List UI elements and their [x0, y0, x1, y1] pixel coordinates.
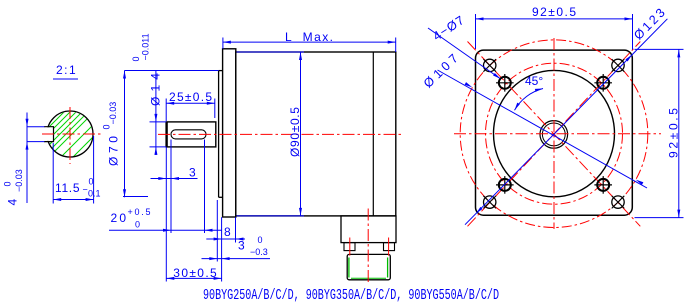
shaft circle outer — [540, 121, 568, 149]
inner red circle — [486, 63, 623, 204]
motor body — [236, 52, 396, 216]
svg-text:0: 0 — [3, 181, 13, 186]
dimension 92±0.5 right — [635, 49, 684, 217]
rear end cap line — [372, 52, 374, 216]
connector housing — [341, 216, 396, 243]
dimension phi14 0/-0.011 — [131, 33, 166, 155]
body top edge blue overlay — [237, 51, 305, 53]
plug green edge bottom — [351, 277, 386, 279]
plug green edge right — [387, 258, 389, 278]
dimension phi70 0/-0.03 — [102, 71, 219, 198]
connector screw right — [388, 238, 390, 256]
dimension 3 0/-0.3 (boss height) — [202, 200, 271, 262]
boss (pilot) face — [219, 71, 223, 198]
dimension 30±0.5 — [166, 266, 221, 280]
shaft circle inner — [542, 123, 565, 146]
corner hole BR — [612, 196, 625, 209]
svg-text:L Max.: L Max. — [285, 30, 333, 44]
shaft — [166, 122, 216, 147]
dimension 25±0.5 — [166, 90, 215, 121]
45 degree arc dimension — [513, 74, 543, 111]
front view centerline vertical — [553, 38, 555, 229]
red diagonal TL-BR — [468, 42, 641, 227]
mounting flange — [223, 49, 236, 217]
detail centerline horizontal — [42, 133, 103, 135]
dimension L Max. — [223, 30, 396, 52]
svg-text:−0.3: −0.3 — [250, 247, 268, 257]
dimension 11.5 0/-0.1 — [53, 136, 100, 204]
svg-text:92±0.5: 92±0.5 — [666, 108, 680, 158]
corner hole TR — [612, 59, 625, 72]
svg-text:4−Ø7: 4−Ø7 — [431, 13, 467, 43]
svg-text:Ø90±0.5: Ø90±0.5 — [288, 107, 302, 157]
flange square — [476, 50, 633, 215]
corner hole TL — [483, 59, 496, 72]
svg-text:Ø14: Ø14 — [149, 73, 163, 106]
svg-text:0: 0 — [131, 56, 141, 61]
corner hole BL — [483, 196, 496, 209]
svg-text:0.1: 0.1 — [88, 189, 101, 199]
dimension 92±0.5 top — [476, 5, 633, 49]
svg-text:30±0.5: 30±0.5 — [173, 266, 217, 280]
side view centerline — [158, 133, 403, 135]
shaft section circle with green hatch — [30, 80, 144, 194]
dimension phi107 diagonal — [421, 51, 647, 188]
connector right tab — [384, 243, 395, 251]
dimension 8 (flange thickness) — [206, 217, 245, 281]
red diagonal BL-TR — [468, 42, 641, 227]
front view centerline horizontal — [454, 133, 661, 135]
svg-text:3: 3 — [238, 238, 245, 252]
screw hole BR — [594, 176, 612, 194]
dimension 20 +0.5/0 (keyway length) — [109, 140, 222, 234]
svg-text:45°: 45° — [525, 74, 543, 88]
shaft front extension line — [165, 148, 167, 282]
dimension 3 (keyway offset) — [151, 140, 198, 234]
pilot circle phi70 — [494, 70, 615, 196]
connector plug — [347, 254, 390, 279]
svg-text:92±0.5: 92±0.5 — [532, 5, 576, 19]
svg-text:20: 20 — [111, 211, 127, 225]
bolt circle phi107 red — [460, 40, 648, 228]
leader 4-phi7 — [428, 13, 501, 80]
detail centerline vertical — [69, 107, 71, 164]
plug green edge left — [348, 258, 350, 278]
connector centerline — [367, 209, 369, 285]
label 2:1 — [53, 63, 78, 79]
svg-text:Ø107: Ø107 — [421, 51, 461, 90]
svg-text:−0.03: −0.03 — [14, 169, 24, 192]
dimension phi123 diagonal — [465, 6, 668, 225]
screw hole TR — [594, 74, 612, 92]
svg-text:0: 0 — [258, 235, 263, 245]
svg-text:−0.03: −0.03 — [108, 102, 118, 125]
shaft keyway slot — [171, 130, 206, 139]
svg-text:8: 8 — [224, 225, 231, 239]
keyway notch on section — [44, 127, 54, 142]
svg-text:4: 4 — [6, 199, 20, 206]
svg-text:0: 0 — [135, 220, 140, 230]
connector screw left — [349, 238, 351, 256]
svg-text:11.5: 11.5 — [55, 181, 80, 195]
svg-text:−: − — [83, 185, 88, 195]
screw hole BL — [496, 176, 514, 194]
svg-text:2:1: 2:1 — [56, 63, 77, 77]
svg-text:+0.5: +0.5 — [128, 207, 151, 217]
connector left tab — [344, 243, 355, 251]
screw hole TL — [496, 74, 514, 92]
dimension phi90 — [288, 52, 302, 216]
body bottom edge blue overlay — [237, 215, 305, 217]
svg-text:Ø70: Ø70 — [107, 136, 121, 166]
svg-text:0: 0 — [89, 177, 94, 187]
svg-text:3: 3 — [189, 166, 196, 180]
dimension 4 0/-0.03 (keyway width) — [3, 113, 45, 206]
svg-text:90BYG250A/B/C/D, 90BYG350A/B/C: 90BYG250A/B/C/D, 90BYG350A/B/C/D, 90BYG5… — [203, 287, 499, 304]
svg-text:−0.011: −0.011 — [141, 33, 151, 60]
svg-text:25±0.5: 25±0.5 — [169, 90, 212, 104]
